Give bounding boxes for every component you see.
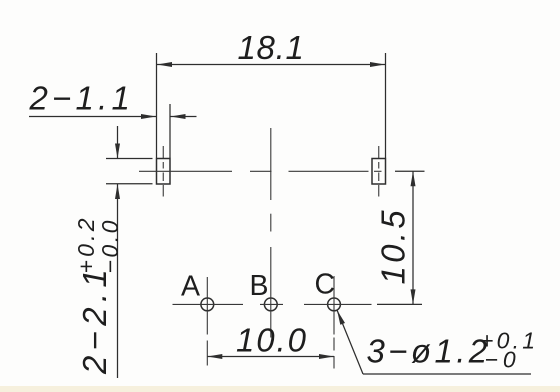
pad left vertical centerline xyxy=(162,146,164,158)
hole C circle xyxy=(328,298,341,311)
arrowhead 2-1.1 pointing left xyxy=(171,114,186,119)
leader segment horizontal 3-d1.2 xyxy=(363,373,531,375)
hole A vertical centerline xyxy=(206,277,208,335)
leader line 2-1.1 xyxy=(29,116,156,118)
arrowhead 18.1 right xyxy=(370,62,385,67)
dimension text 2-2.1 rotated with tolerance xyxy=(73,215,123,375)
right tail line 2-1.1 xyxy=(171,116,197,118)
svg-text:+0.2: +0.2 xyxy=(73,215,99,273)
extension line left of 18.1 / pad left edge xyxy=(156,53,158,158)
svg-text:10.5: 10.5 xyxy=(375,207,412,284)
hole B circle xyxy=(264,298,277,311)
pad right rectangle xyxy=(372,159,386,185)
dimension line 2-2.1 upper segment xyxy=(117,126,119,159)
arrowhead 10.0 pointing right xyxy=(319,354,334,359)
arrowhead 2-1.1 pointing right xyxy=(141,114,156,119)
hole B horizontal centerline xyxy=(260,303,283,305)
dimension line 18.1 xyxy=(157,64,386,66)
extension line pad-left right edge xyxy=(169,104,171,158)
arrowhead 2-2.1 pointing up xyxy=(115,184,120,199)
hole A horizontal centerline xyxy=(173,303,244,305)
extension line right of 18.1 / pad right edge xyxy=(385,53,387,158)
arrowhead 2-2.1 pointing down xyxy=(115,144,120,159)
svg-text:−0.0: −0.0 xyxy=(97,218,123,273)
dimension line 10.5 xyxy=(412,171,414,304)
extension line 2-2.1 bottom xyxy=(106,183,153,185)
svg-text:B: B xyxy=(250,270,269,302)
leader segment diagonal 3-d1.2 xyxy=(337,310,363,374)
extension line 10.5 top xyxy=(395,170,425,172)
pad right vertical centerline xyxy=(378,146,380,158)
dimension line 2-2.1 lower segment xyxy=(117,184,119,378)
extension line 10.5 bottom xyxy=(377,303,422,305)
main vertical centerline xyxy=(270,128,272,200)
arrowhead 18.1 left xyxy=(157,62,172,67)
svg-text:10.0: 10.0 xyxy=(236,322,308,359)
svg-text:18.1: 18.1 xyxy=(237,29,304,66)
hole A circle xyxy=(201,298,214,311)
hole C horizontal centerline xyxy=(304,303,372,305)
extension line 2-2.1 top xyxy=(106,158,153,160)
svg-text:2−2.1: 2−2.1 xyxy=(76,264,113,375)
horizontal centerline through pads xyxy=(139,170,232,172)
svg-text:−0: −0 xyxy=(485,347,521,373)
pad left rectangle xyxy=(157,159,171,185)
arrowhead 10.5 pointing down xyxy=(411,289,416,304)
svg-text:2−1.1: 2−1.1 xyxy=(29,80,135,117)
arrowhead leader 3-d1.2 xyxy=(337,310,345,325)
svg-text:3−ø1.2: 3−ø1.2 xyxy=(367,333,491,370)
arrowhead 10.0 pointing left xyxy=(207,354,222,359)
dimension line 10.0 xyxy=(207,356,334,358)
svg-text:A: A xyxy=(181,271,200,303)
hole C vertical centerline xyxy=(333,276,335,335)
svg-text:C: C xyxy=(315,269,336,301)
arrowhead 10.5 pointing up xyxy=(411,171,416,186)
bottom cream strip xyxy=(0,386,560,392)
